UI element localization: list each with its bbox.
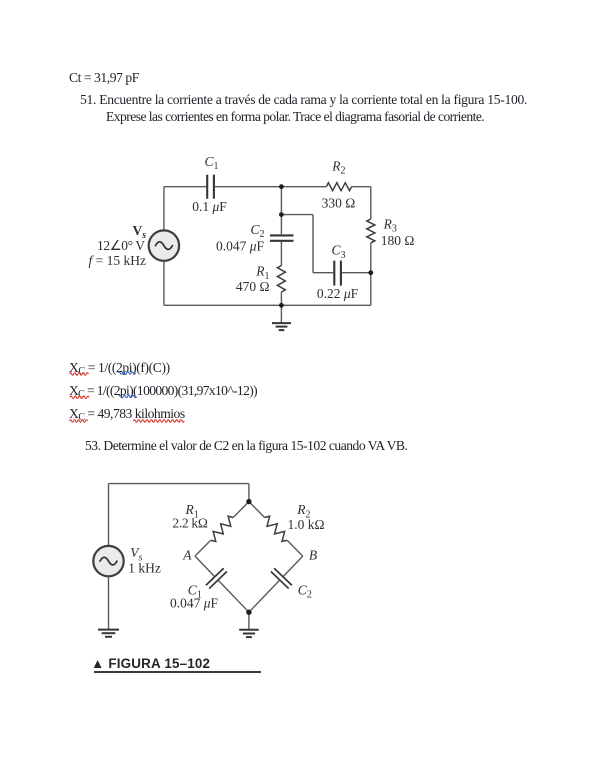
svg-text:f = 15 kHz: f = 15 kHz — [89, 253, 147, 268]
svg-text:C1: C1 — [205, 154, 219, 172]
svg-text:0.22 μF: 0.22 μF — [317, 286, 359, 301]
svg-text:180 Ω: 180 Ω — [381, 233, 415, 248]
svg-text:A: A — [182, 547, 192, 562]
svg-text:R2: R2 — [331, 158, 345, 176]
svg-text:12∠0° V: 12∠0° V — [97, 238, 145, 253]
svg-text:1 kHz: 1 kHz — [128, 561, 161, 576]
svg-text:R3: R3 — [383, 216, 397, 234]
svg-text:0.1 μF: 0.1 μF — [192, 199, 227, 214]
svg-text:C3: C3 — [332, 242, 346, 260]
svg-text:C2: C2 — [298, 582, 312, 600]
svg-text:B: B — [309, 547, 317, 562]
svg-text:2.2 kΩ: 2.2 kΩ — [172, 516, 208, 531]
svg-text:0.047 μF: 0.047 μF — [170, 595, 219, 610]
svg-text:1.0 kΩ: 1.0 kΩ — [288, 517, 325, 532]
svg-text:330 Ω: 330 Ω — [322, 195, 356, 210]
svg-text:0.047 μF: 0.047 μF — [216, 238, 265, 253]
svg-text:470 Ω: 470 Ω — [236, 279, 270, 294]
